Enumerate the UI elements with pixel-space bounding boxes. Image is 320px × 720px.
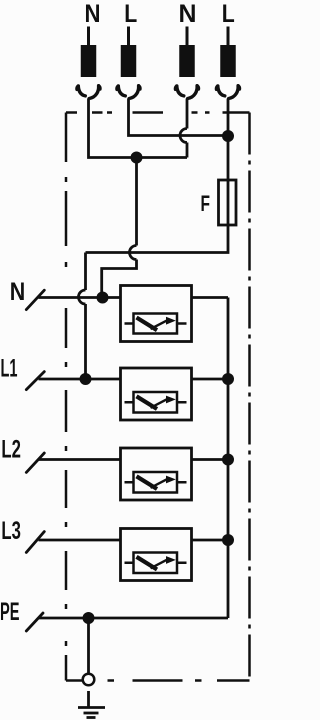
svg-text:N: N — [10, 278, 26, 306]
svg-text:L: L — [222, 0, 235, 28]
svg-text:F: F — [201, 191, 211, 216]
svg-text:L3: L3 — [1, 517, 21, 545]
svg-text:N: N — [85, 0, 101, 28]
svg-text:PE: PE — [0, 598, 20, 626]
svg-text:L: L — [124, 0, 137, 28]
svg-text:N: N — [179, 0, 197, 28]
svg-text:L1: L1 — [1, 355, 18, 383]
svg-text:L2: L2 — [1, 436, 21, 464]
